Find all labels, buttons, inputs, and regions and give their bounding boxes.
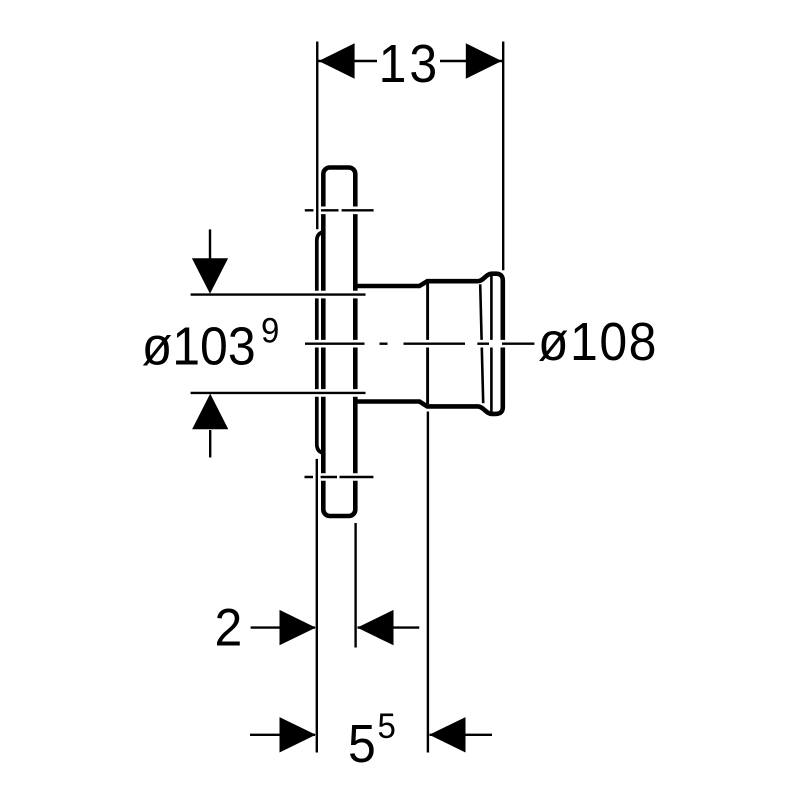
centerline dash 3 [404, 340, 466, 348]
dimension line 2 left segment [251, 626, 315, 628]
flange break tick top [305, 207, 339, 215]
flange break tick bottom [305, 473, 338, 481]
arrow stem diameter 103.9 top [209, 229, 211, 259]
diameter 103.9 dimension line bottom [191, 389, 366, 397]
dimension line 2 right segment [358, 626, 420, 628]
arrowhead 13 left [319, 43, 355, 78]
centerline dash 2 [380, 340, 388, 348]
dimension line 5.5 right segment [430, 734, 493, 736]
back plate left edge (flange rear disc) [317, 232, 325, 454]
extension line flange right bottom [352, 523, 360, 648]
extension line 13 right [499, 42, 507, 271]
diameter 103.9 dimension line top [191, 291, 366, 299]
svg-text:ø108: ø108 [538, 311, 658, 371]
socket outline with press-fit bead [356, 274, 503, 414]
extension line socket mouth bottom [424, 412, 432, 753]
arrowhead 2 right (pointing left) [357, 610, 393, 645]
arrowhead diameter 103.9 up [192, 394, 228, 430]
arrowhead diameter 103.9 down [192, 258, 228, 294]
svg-text:ø103: ø103 [142, 316, 256, 376]
centerline leader to label [498, 340, 535, 348]
arrowhead 13 right [466, 43, 502, 78]
dimension line 13 left segment [318, 60, 377, 62]
dimension line 5.5 left segment [250, 734, 315, 736]
bead cone slant line [480, 284, 483, 403]
extension line 13 left [313, 42, 321, 230]
arrowhead 5.5 left (pointing right) [280, 717, 316, 752]
svg-text:5: 5 [348, 713, 376, 773]
dimension line 13 right segment [440, 60, 503, 62]
arrowhead 2 left (pointing right) [280, 610, 316, 645]
svg-text:9: 9 [261, 312, 279, 351]
svg-text:5: 5 [378, 707, 396, 746]
centerline dash 4 [476, 340, 494, 348]
arrowhead 5.5 right (pointing left) [429, 717, 465, 752]
arrow stem diameter 103.9 bottom [209, 430, 211, 458]
svg-text:2: 2 [215, 598, 243, 656]
flange body (rounded rectangle) [323, 168, 355, 517]
centerline dash 1 [305, 340, 365, 348]
bead inner vertical line [490, 276, 493, 412]
extension line rear plate bottom [313, 459, 321, 753]
svg-text:13: 13 [379, 33, 441, 93]
socket mouth step line [426, 284, 429, 405]
